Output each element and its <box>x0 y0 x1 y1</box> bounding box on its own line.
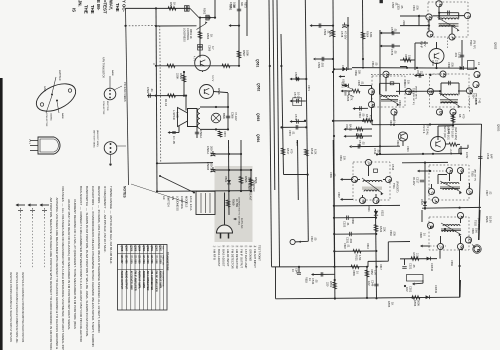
label R501 <box>403 80 410 86</box>
svg-text:C565: C565 <box>229 2 233 9</box>
svg-text:R528: R528 <box>419 232 422 238</box>
wire y154 dots <box>376 153 434 156</box>
svg-text:(WHT DOT SIDE): (WHT DOT SIDE) <box>93 130 95 148</box>
svg-text:D: D <box>429 34 433 37</box>
svg-text:C: C <box>431 191 435 194</box>
svg-text:5.6K: 5.6K <box>475 228 478 233</box>
power supply shaded region <box>215 166 253 242</box>
electrolytic C578 <box>340 23 348 40</box>
wire y205 row <box>334 204 400 207</box>
wire y179 det arrow <box>340 178 353 181</box>
label Q564 <box>256 134 260 142</box>
label C² <box>337 192 340 198</box>
diode CR543 <box>426 285 438 299</box>
svg-text:R562: R562 <box>203 8 207 15</box>
label C524 <box>406 146 409 152</box>
svg-text:47-16V: 47-16V <box>344 31 348 40</box>
svg-text:1K: 1K <box>393 120 396 123</box>
svg-text:22K: 22K <box>383 227 387 232</box>
label L501 <box>402 20 405 26</box>
wire y59 stub <box>313 57 333 61</box>
svg-text:G8: G8 <box>460 245 464 250</box>
svg-text:=TEST: =TEST <box>102 0 107 14</box>
svg-text:C561: C561 <box>146 87 150 94</box>
resistor R517 <box>281 148 293 155</box>
svg-text:R551: R551 <box>329 281 333 288</box>
svg-text:47-16V: 47-16V <box>234 112 238 121</box>
svg-text:C581: C581 <box>317 62 321 69</box>
capacitor C560 box <box>185 6 190 12</box>
transistor Q502 <box>429 42 444 68</box>
resistor R552 interrail <box>365 266 376 299</box>
svg-text:Q507: Q507 <box>125 245 128 252</box>
wire bottom rail y266 <box>272 265 369 276</box>
svg-text:AM/FM IF AMPL: AM/FM IF AMPL <box>142 271 145 290</box>
wire vertical bus L3 <box>277 0 280 267</box>
svg-text:Q503: Q503 <box>142 245 145 252</box>
label C501 <box>412 5 419 11</box>
svg-text:.05: .05 <box>394 28 398 32</box>
label T501 <box>471 169 477 181</box>
svg-text:CAPACITORS — IN MICROFARADS: CAPACITORS — IN MICROFARADS UNLESS OTHER… <box>91 186 95 347</box>
svg-text:AM IF (KD): AM IF (KD) <box>443 126 446 138</box>
resistor R569 <box>226 199 239 208</box>
svg-text:TEST POINT: TEST POINT <box>258 245 262 261</box>
legend text chassis ground <box>9 272 12 343</box>
diode X542 <box>427 257 434 272</box>
wire y120 det <box>333 121 438 125</box>
resistor R570 <box>218 131 226 137</box>
label Q502 edge <box>494 42 498 50</box>
label C539 <box>450 260 453 266</box>
wire stair y241 <box>388 242 410 262</box>
svg-text:Ⓗ BIAS ADJUST: Ⓗ BIAS ADJUST <box>222 245 226 267</box>
svg-text:.05: .05 <box>377 149 381 153</box>
svg-text:10-16V: 10-16V <box>297 92 301 101</box>
svg-text:AM/FM IF AMPL: AM/FM IF AMPL <box>159 271 162 290</box>
notes text block (rotated) <box>49 186 127 354</box>
label R526 <box>471 228 478 234</box>
wire y66 rail <box>157 65 240 67</box>
resistor R567 <box>237 50 249 58</box>
svg-text:RESISTORS — IN OHMS, 10% TOL: RESISTORS — IN OHMS, 10% TOLERANCE UNLES… <box>97 186 101 333</box>
svg-text:R555: R555 <box>387 301 391 308</box>
TO-3 lead label collector <box>45 113 47 127</box>
svg-text:470: 470 <box>369 115 373 120</box>
svg-text:C501: C501 <box>412 5 415 11</box>
svg-text:NOTES: NOTES <box>123 186 127 198</box>
svg-text:CONTROL: CONTROL <box>180 196 184 210</box>
wire dashed x160 <box>160 26 161 163</box>
svg-text:1.36-45 (KD): 1.36-45 (KD) <box>447 126 450 140</box>
svg-text:1K: 1K <box>210 34 214 37</box>
capacitor C565 <box>229 2 241 11</box>
svg-text:1000: 1000 <box>233 2 237 8</box>
wire y46 stub <box>380 44 401 48</box>
capacitor C510 row <box>353 106 369 118</box>
svg-text:AF DRIVER AMP: AF DRIVER AMP <box>129 271 132 291</box>
label C525 <box>397 4 404 10</box>
svg-text:100-15V: 100-15V <box>210 162 214 172</box>
wire y170 left <box>213 169 251 171</box>
label C535 <box>329 172 336 178</box>
svg-text:TRANSISTORS: TRANSISTORS <box>166 252 170 271</box>
wire y67 emitter rail <box>352 66 477 70</box>
capacitor C563 box <box>206 15 209 20</box>
label 4.1V <box>211 75 215 81</box>
svg-text:C561: C561 <box>371 61 374 67</box>
svg-text:L501: L501 <box>402 20 405 26</box>
wire vertical x376 <box>376 209 377 299</box>
wire ant y16 <box>400 15 426 18</box>
wire y129 box bottom <box>200 128 228 130</box>
svg-text:M: M <box>438 4 442 7</box>
svg-text:C566: C566 <box>208 45 212 52</box>
test point A5 <box>391 109 397 116</box>
dashed box FM det <box>353 162 390 200</box>
test point A4a <box>440 71 446 78</box>
wire vertical x333 <box>333 0 335 299</box>
dashed box FM mixer <box>430 74 470 107</box>
TO-92 pin numbers <box>28 139 30 145</box>
svg-text:1 2 3: 1 2 3 <box>28 139 30 145</box>
svg-text:CR543: CR543 <box>434 285 438 294</box>
svg-text:.001: .001 <box>454 52 458 58</box>
wire y60 stub <box>400 54 415 62</box>
svg-text:R556: R556 <box>413 300 417 307</box>
svg-text:(AM 1ST IF): (AM 1ST IF) <box>474 169 477 181</box>
svg-text:.05: .05 <box>315 279 319 283</box>
svg-text:WAY,: WAY, <box>108 0 113 10</box>
svg-text:C564B: C564B <box>206 162 210 170</box>
test point K1 <box>473 81 479 87</box>
svg-text:C: C <box>440 246 444 249</box>
legend text audio ground <box>15 272 18 344</box>
capacitor C572 <box>290 114 307 124</box>
svg-text:R522: R522 <box>379 226 383 233</box>
FM rf wires <box>429 7 452 34</box>
volume control row <box>344 124 373 140</box>
capacitor C573 link <box>280 125 307 136</box>
svg-text:MODELS: MODELS <box>185 196 189 208</box>
pin view 1 collector label <box>102 101 104 115</box>
label X521 <box>367 206 370 212</box>
wire vertical x440 diode riser <box>439 251 441 259</box>
svg-text:Ⓐ FM ANT INPUT: Ⓐ FM ANT INPUT <box>253 245 257 268</box>
svg-text:TUNING RANGE — AM 540-1600 K: TUNING RANGE — AM 540-1600 KHZ, FM 88-10… <box>109 186 113 265</box>
svg-text:Ⓕ FM DETECTOR: Ⓕ FM DETECTOR <box>231 245 235 269</box>
svg-text:Ⓓ FM IF OUTPUT: Ⓓ FM IF OUTPUT <box>240 245 244 268</box>
wire vertical x425 <box>424 162 426 210</box>
svg-text:C517: C517 <box>416 177 420 184</box>
svg-text:2.2K: 2.2K <box>416 253 420 259</box>
test point c1 <box>428 188 434 194</box>
resistor R564 <box>361 31 373 39</box>
wire vertical x415 <box>414 43 416 70</box>
svg-text:.005: .005 <box>451 62 454 67</box>
svg-text:C549: C549 <box>371 280 375 287</box>
wire y126 stub <box>438 125 453 127</box>
svg-text:FM RF AMPLIFIER: FM RF AMPLIFIER <box>154 271 157 292</box>
label Q562 <box>257 83 261 91</box>
svg-text:10.5V: 10.5V <box>465 152 468 159</box>
mixer inner loop <box>441 81 459 95</box>
svg-text:EMITTER: EMITTER <box>58 70 61 81</box>
svg-text:X521: X521 <box>367 206 370 212</box>
cut-off margin text (rotated) <box>71 0 126 14</box>
svg-text:SWITCH: SWITCH <box>167 196 171 207</box>
svg-text:C513: C513 <box>373 148 377 155</box>
svg-text:A: A <box>460 215 464 218</box>
det vert wires2 <box>372 77 395 121</box>
label R519 <box>396 140 399 146</box>
svg-text:R521: R521 <box>355 255 359 262</box>
test point N2 <box>368 88 374 95</box>
label R528 <box>419 232 426 238</box>
wire vertical x298 <box>297 140 300 200</box>
svg-text:C512: C512 <box>458 52 462 59</box>
pin end views caption <box>123 82 127 102</box>
test point TP <box>290 239 295 244</box>
svg-text:R552: R552 <box>370 269 373 275</box>
svg-text:C522: C522 <box>343 243 346 249</box>
capacitor C523 <box>343 216 351 228</box>
svg-text:A: A <box>354 179 358 182</box>
svg-text:C530: C530 <box>389 230 392 236</box>
AM conv transformer <box>440 181 462 194</box>
svg-text:FM CONVERTER: FM CONVERTER <box>150 271 153 291</box>
wire y258 am <box>400 258 437 260</box>
capacitor C521 <box>402 259 416 270</box>
test point N3 <box>427 88 433 95</box>
svg-text:(CONNECTED TO 117V AC): (CONNECTED TO 117V AC) <box>238 197 241 225</box>
wire ant y25 <box>400 25 429 27</box>
svg-text:6AF: 6AF <box>490 154 494 159</box>
wire vertical x363 <box>362 0 365 66</box>
svg-text:B: B <box>362 200 366 203</box>
svg-text:C523: C523 <box>343 221 347 228</box>
test point o3 <box>437 243 443 249</box>
svg-text:R8: R8 <box>458 114 462 118</box>
svg-text:A: A <box>451 37 455 40</box>
svg-text:GND: GND <box>43 86 46 92</box>
label C522 <box>343 243 350 249</box>
svg-text:R564: R564 <box>366 31 370 38</box>
svg-text:C569: C569 <box>323 29 327 36</box>
plug top lead <box>224 193 226 225</box>
lamp/meter circle <box>211 113 226 123</box>
svg-text:C578: C578 <box>340 31 344 38</box>
wire y66 r stub <box>400 66 407 68</box>
transistor Q561 <box>193 55 211 72</box>
diode X501 <box>342 79 349 87</box>
ground symbol legend <box>16 203 50 269</box>
svg-text:4.7: 4.7 <box>211 46 215 50</box>
label C509 <box>398 100 401 106</box>
label R543 <box>366 243 369 249</box>
svg-text:Ⓔ AM DETECTOR: Ⓔ AM DETECTOR <box>235 245 239 269</box>
svg-text:1.6Ω: 1.6Ω <box>176 112 180 118</box>
svg-text:AUDIO OUTPUT: AUDIO OUTPUT <box>120 271 123 290</box>
svg-text:10K: 10K <box>343 156 346 161</box>
svg-text:G: G <box>388 179 392 182</box>
svg-text:Ⓒ 1ST FM IF AMP: Ⓒ 1ST FM IF AMP <box>244 245 248 268</box>
label C514 <box>391 164 395 171</box>
svg-text:BASE: BASE <box>61 113 64 119</box>
svg-text:C527: C527 <box>485 190 488 196</box>
dashed box FM RF <box>428 2 468 37</box>
svg-text:BIAS ADJUST — CONNECT A MILL: BIAS ADJUST — CONNECT A MILLIAMMETER BET… <box>79 186 83 343</box>
svg-text:200-15V: 200-15V <box>210 146 214 156</box>
wire vertical x422 <box>421 210 423 222</box>
FM mixer transformer <box>439 93 461 108</box>
svg-text:R560: R560 <box>169 2 173 9</box>
svg-text:DENOTES AC GROUND & CHASSIS MO: DENOTES AC GROUND & CHASSIS MOUNTING IN … <box>21 272 24 343</box>
test point c2 <box>432 197 438 203</box>
mixer vert wires <box>409 74 467 91</box>
svg-text:X561: X561 <box>224 176 228 183</box>
resistor R545 <box>411 253 420 261</box>
svg-text:121-907: 121-907 <box>120 255 123 265</box>
wire y146 cluster <box>349 144 400 148</box>
scan edge strip <box>0 78 3 350</box>
pin view 1 emitter label <box>106 101 108 111</box>
label T511 <box>392 181 400 193</box>
wire y154 left <box>213 153 241 155</box>
label 10.5V <box>465 152 468 159</box>
svg-text:T502: T502 <box>474 220 478 226</box>
annotation leader line <box>131 184 188 203</box>
label C³ <box>310 236 317 242</box>
wire vertical x184 <box>183 72 185 96</box>
svg-text:C4 .05: C4 .05 <box>172 136 176 144</box>
capacitor C512 <box>454 52 464 59</box>
wire vertical x419 ant <box>418 16 420 26</box>
wire vertical x438 <box>437 126 439 140</box>
svg-text:CONTROL: CONTROL <box>186 28 189 41</box>
speaker top lead <box>185 95 187 111</box>
label C571b <box>307 85 310 91</box>
capacitor C519 <box>478 153 493 160</box>
svg-text:470: 470 <box>462 114 466 119</box>
test point Bdet <box>359 197 365 203</box>
svg-text:DENOTES CHASSIS GROUND & B- NE: DENOTES CHASSIS GROUND & B- NEGATIVE SUP… <box>9 272 12 343</box>
test point E1 <box>450 109 456 115</box>
svg-text:10K: 10K <box>407 80 410 85</box>
diode X560 row <box>333 67 352 71</box>
test point Ddet <box>373 197 379 203</box>
label C580 <box>391 2 399 9</box>
svg-text:VOLTAGES — ALL VOLTAGES ARE: VOLTAGES — ALL VOLTAGES ARE DC MEASURED … <box>61 186 65 350</box>
svg-text:6.2K: 6.2K <box>314 149 318 155</box>
wire y95 rail <box>147 95 184 97</box>
resistor R560 <box>168 2 177 10</box>
wire vertical x380 top <box>379 30 381 154</box>
capacitor C561 <box>146 87 154 98</box>
ac switch note <box>162 196 193 211</box>
svg-text:R561 1K: R561 1K <box>189 29 192 39</box>
svg-text:R504: R504 <box>404 54 407 60</box>
label C561c <box>371 61 378 67</box>
label T503b <box>412 93 414 105</box>
wire y246 arrow <box>420 245 446 248</box>
AM osc transformer <box>441 223 462 236</box>
pin end view circle 1 <box>104 76 122 100</box>
wire vertical x228 <box>227 93 229 129</box>
osc wires <box>431 219 461 250</box>
resistor Q503 emitter <box>449 143 457 155</box>
svg-text:1.5K: 1.5K <box>374 270 377 275</box>
transistor parts table grid <box>118 245 168 311</box>
svg-text:6.7V: 6.7V <box>423 41 427 47</box>
svg-text:R572: R572 <box>295 140 298 146</box>
test point c3 <box>466 188 472 194</box>
wire y171 right <box>417 170 446 173</box>
power transformer box <box>196 191 215 214</box>
svg-text:100K: 100K <box>246 50 250 56</box>
svg-text:C508: C508 <box>474 98 478 105</box>
pot R559 arrow <box>197 21 208 29</box>
wire vertical x459 low <box>459 250 461 297</box>
svg-text:Q506: Q506 <box>129 245 132 252</box>
test point G4c <box>457 167 463 174</box>
wire bottom rail y298 <box>276 297 461 299</box>
svg-text:C535: C535 <box>329 172 332 178</box>
svg-text:121-590: 121-590 <box>146 255 149 265</box>
resistor R521 <box>353 249 362 261</box>
svg-text:R565: R565 <box>244 176 248 183</box>
wire y17 stub <box>206 17 215 19</box>
svg-text:D: D <box>375 200 379 203</box>
svg-text:BASE: BASE <box>111 70 114 76</box>
svg-text:FM-IF: FM-IF <box>420 41 424 49</box>
wire vertical bus L2 <box>273 0 275 190</box>
table cell text <box>120 245 164 292</box>
svg-text:TP 10.8V: TP 10.8V <box>451 127 455 138</box>
wire vertical x348 <box>347 17 349 70</box>
wire vertical x247 <box>240 0 247 36</box>
svg-text:Q562: Q562 <box>154 245 157 252</box>
svg-text:C561: C561 <box>341 65 345 72</box>
wire left border x125 <box>124 8 128 185</box>
svg-text:C516: C516 <box>358 140 362 147</box>
svg-text:C506: C506 <box>447 62 450 68</box>
capacitor C569 <box>310 23 334 35</box>
wire y162 right <box>402 161 448 163</box>
svg-text:B5W: B5W <box>222 113 226 119</box>
capacitor C566 <box>226 112 238 121</box>
label C505 <box>357 80 364 86</box>
output transformer winding <box>198 109 201 129</box>
svg-text:R526: R526 <box>485 216 489 223</box>
svg-text:-2.2V: -2.2V <box>449 149 453 155</box>
npn transistor label <box>102 57 105 78</box>
shaded core bar T511 <box>362 187 382 190</box>
svg-text:R547: R547 <box>379 264 382 270</box>
svg-text:Q508: Q508 <box>120 245 123 252</box>
svg-text:R531: R531 <box>339 155 342 161</box>
capacitor C571 box <box>293 98 302 106</box>
test point A2a <box>426 14 432 21</box>
label C576 <box>390 49 398 56</box>
label T503 <box>412 86 418 99</box>
svg-text:T511: T511 <box>392 183 396 189</box>
svg-text:C7: C7 <box>468 239 472 244</box>
svg-text:C537: C537 <box>337 192 340 198</box>
label R505 <box>389 120 396 126</box>
svg-text:Q562: Q562 <box>257 83 261 91</box>
wire y199 det arrow <box>340 198 353 201</box>
